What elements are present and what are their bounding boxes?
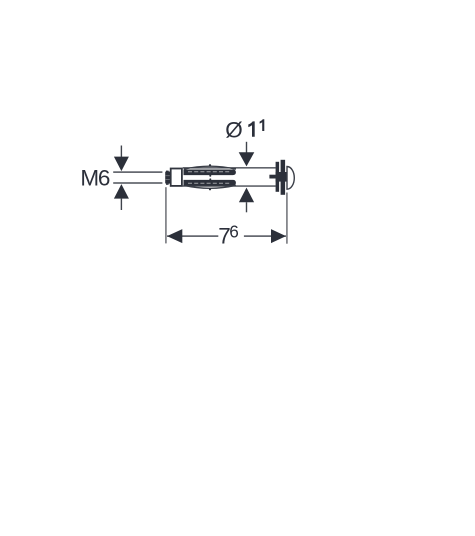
M6 extension line top [113,171,162,172]
svg-text:Ø: Ø [225,117,243,142]
dimension label Ø 11 [225,117,264,142]
M6 arrow down [114,157,129,172]
svg-text:6: 6 [229,221,239,241]
M6 leader line top [121,146,122,157]
expansion leg bottom [184,180,236,186]
expansion sleeve outer curve top [184,166,236,169]
screw core through flange [276,172,287,182]
svg-text:M6: M6 [80,165,109,190]
M6 extension line bottom [113,182,162,183]
threaded stud M6 [165,171,170,185]
nut block [171,169,182,186]
arrow left (76) [167,229,182,243]
sleeve rivet marks [209,164,211,190]
M6 arrow up [114,184,129,199]
dome screw head [287,167,294,190]
anchor body outline top [183,167,276,168]
flange collar [281,160,286,195]
anchor body outline bottom [183,185,276,186]
screw shank stub [269,175,275,179]
dimension line 76 left segment [167,235,218,236]
expansion sleeve outer curve bottom [184,185,236,188]
washer plate [276,162,280,192]
dimension leader line top (Ø 11) [246,142,247,153]
arrow up (Ø 11 bottom) [239,188,254,203]
extension line left (76) [165,187,167,243]
arrow down (Ø 11 top) [239,152,255,166]
M6 leader line bottom [121,199,122,210]
expansion leg top [184,170,236,176]
dimension leader line bottom (Ø 11) [246,202,247,212]
dimension line 76 right segment [244,235,286,236]
arrow right (76) [271,229,286,243]
extension line right (76) [286,193,288,244]
